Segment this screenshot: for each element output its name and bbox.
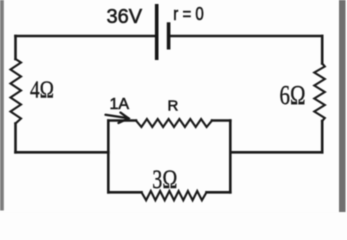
svg-text:r = 0: r = 0 [173, 3, 204, 24]
svg-text:36V: 36V [107, 6, 143, 28]
svg-text:3Ω: 3Ω [152, 165, 177, 194]
svg-text:1A: 1A [110, 96, 130, 113]
svg-text:R: R [168, 98, 179, 115]
svg-text:6Ω: 6Ω [280, 79, 306, 110]
svg-text:4Ω: 4Ω [30, 77, 54, 103]
